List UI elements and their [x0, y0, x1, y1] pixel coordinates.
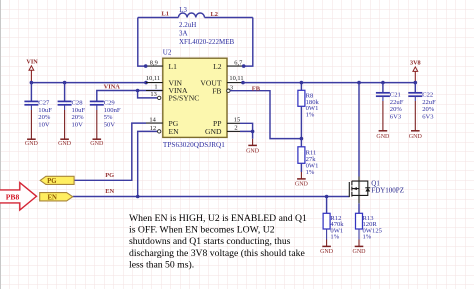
- svg-text:10uF: 10uF: [72, 107, 86, 114]
- svg-text:50V: 50V: [104, 121, 116, 128]
- node dot VOUT: [241, 81, 245, 85]
- svg-text:6,7: 6,7: [234, 60, 243, 67]
- ground GND R11: [295, 172, 309, 188]
- svg-text:EN: EN: [105, 188, 114, 195]
- pin VINA (1): [146, 84, 188, 96]
- node junction Q1 drain: [357, 81, 361, 85]
- svg-text:L1: L1: [162, 10, 169, 17]
- svg-text:U2: U2: [163, 49, 172, 57]
- transistor Q1: [349, 177, 370, 204]
- svg-text:XFL4020-222MEB: XFL4020-222MEB: [179, 38, 235, 46]
- svg-text:C28: C28: [72, 100, 84, 107]
- svg-text:8,9: 8,9: [150, 59, 158, 66]
- ground GND R13: [353, 240, 367, 255]
- resistor R11: [298, 139, 319, 176]
- svg-text:20%: 20%: [390, 106, 403, 113]
- node junction VIN/C27: [30, 81, 34, 85]
- svg-text:PS/SYNC: PS/SYNC: [169, 94, 200, 103]
- node junction C22/3V8: [414, 81, 418, 85]
- svg-text:PG: PG: [47, 178, 57, 185]
- svg-text:GND: GND: [320, 249, 334, 255]
- pin L2 (6,7): [213, 60, 244, 71]
- svg-text:2.2uH: 2.2uH: [179, 21, 196, 29]
- IC U2 body: [163, 58, 227, 137]
- node junction VINA: [136, 89, 140, 93]
- svg-text:GND: GND: [205, 127, 222, 136]
- wire VOUT rail: [243, 82, 415, 84]
- svg-text:GND: GND: [376, 134, 390, 140]
- svg-text:10,11: 10,11: [229, 75, 243, 82]
- capacitor C21: [376, 83, 404, 121]
- svg-text:GND: GND: [90, 141, 104, 147]
- svg-text:1: 1: [154, 84, 157, 91]
- svg-text:10uF: 10uF: [38, 107, 52, 114]
- node dot pin 6,7: [242, 64, 246, 68]
- svg-text:6V3: 6V3: [422, 114, 434, 121]
- wire: loop left vertical: [138, 18, 146, 67]
- wire: inductor loop top-left segment: [138, 17, 179, 19]
- node junction C21: [381, 81, 385, 85]
- off-sheet connector PB8: [0, 183, 37, 210]
- svg-text:3V8: 3V8: [410, 60, 421, 67]
- capacitor C27: [24, 83, 52, 129]
- pin PP (15): [213, 116, 240, 128]
- svg-text:PG: PG: [105, 172, 114, 179]
- svg-text:GND: GND: [58, 141, 72, 147]
- svg-text:14: 14: [149, 116, 156, 123]
- ground GND C28: [58, 110, 72, 147]
- pin PG (14): [146, 116, 179, 128]
- svg-text:When EN is HIGH, U2 is ENABLED: When EN is HIGH, U2 is ENABLED and Q1: [129, 213, 307, 224]
- capacitor C29: [90, 100, 121, 129]
- svg-text:GND: GND: [409, 134, 423, 140]
- wire PP/GND to ground: [240, 123, 253, 139]
- svg-text:GND: GND: [295, 182, 309, 188]
- wire Q1 drain: [358, 83, 360, 177]
- svg-text:20%: 20%: [422, 106, 435, 113]
- svg-text:20%: 20%: [38, 114, 51, 121]
- ground GND pins: [246, 139, 260, 155]
- pin VIN (10,11): [146, 75, 183, 87]
- wire VINA: [97, 91, 138, 102]
- svg-text:FB: FB: [212, 86, 221, 95]
- resistor R12: [323, 213, 344, 240]
- svg-text:discharging the 3V8 voltage (t: discharging the 3V8 voltage (this should…: [129, 248, 305, 259]
- svg-text:GND: GND: [25, 141, 39, 147]
- power symbol 3V8: [410, 60, 421, 83]
- pin 12 bubble: [158, 130, 161, 133]
- wire: VIN rail: [31, 82, 146, 84]
- pin GND (2): [205, 124, 240, 136]
- port PG: [40, 176, 74, 185]
- pin L1 (8,9): [146, 59, 177, 70]
- svg-text:C22: C22: [422, 91, 433, 98]
- svg-text:GND: GND: [353, 249, 367, 255]
- node junction FB/R8/R11: [300, 137, 304, 141]
- node junction VIN pin: [144, 81, 148, 85]
- svg-text:C27: C27: [38, 100, 50, 107]
- ground GND C27: [25, 110, 39, 147]
- svg-text:1%: 1%: [306, 169, 315, 176]
- svg-text:L1: L1: [169, 62, 178, 71]
- note text block: [129, 213, 307, 271]
- wire VINA to pin1 and pin13: [138, 91, 163, 98]
- capacitor C28: [58, 83, 86, 129]
- wire Q1 source to R13: [358, 203, 360, 213]
- ground GND C21: [376, 101, 390, 140]
- svg-text:shutdowns and Q1 starts conduc: shutdowns and Q1 starts conducting, thus: [129, 236, 291, 247]
- wire FB net: [230, 91, 301, 139]
- pin PS/SYNC (13): [150, 91, 199, 103]
- inductor L3: [178, 13, 204, 18]
- resistor R13: [356, 213, 383, 240]
- svg-text:L2: L2: [211, 11, 218, 18]
- svg-text:10,11: 10,11: [146, 75, 160, 82]
- svg-text:1%: 1%: [306, 112, 315, 119]
- wire: inductor loop top-right segment: [205, 17, 253, 19]
- svg-text:C21: C21: [390, 91, 401, 98]
- wire EN net: [73, 131, 350, 213]
- svg-text:10V: 10V: [72, 121, 84, 128]
- svg-text:VINA: VINA: [104, 83, 121, 90]
- svg-text:L2: L2: [213, 62, 222, 71]
- sheet border: [0, 0, 2, 289]
- capacitor C22: [408, 83, 436, 121]
- svg-text:PB8: PB8: [6, 193, 20, 202]
- wire: loop right vertical: [244, 18, 253, 67]
- svg-text:5%: 5%: [104, 114, 113, 121]
- node junction pin2: [251, 130, 255, 134]
- svg-text:FDY100PZ: FDY100PZ: [371, 186, 404, 194]
- svg-text:100nF: 100nF: [104, 107, 121, 114]
- pin EN (12): [150, 125, 179, 136]
- svg-text:VIN: VIN: [26, 59, 38, 66]
- svg-text:L3: L3: [179, 7, 187, 14]
- node junction EN/R12: [325, 195, 329, 199]
- svg-text:20%: 20%: [72, 114, 85, 121]
- pin VOUT (10,11): [200, 75, 243, 87]
- pin 13 bubble: [158, 96, 161, 99]
- svg-text:1%: 1%: [363, 234, 372, 241]
- svg-text:C29: C29: [104, 100, 116, 107]
- svg-text:EN: EN: [169, 127, 180, 136]
- svg-text:22uF: 22uF: [390, 99, 404, 106]
- power symbol VIN: [26, 59, 38, 83]
- svg-text:1%: 1%: [330, 234, 339, 241]
- wire PG net: [74, 123, 146, 180]
- svg-text:TPS63020QDSJRQ1: TPS63020QDSJRQ1: [163, 141, 225, 149]
- svg-text:15: 15: [234, 116, 240, 123]
- svg-text:2: 2: [234, 124, 237, 131]
- svg-text:EN: EN: [47, 194, 57, 201]
- port EN: [40, 193, 73, 202]
- node junction C28: [63, 81, 67, 85]
- svg-text:GND: GND: [246, 149, 260, 155]
- svg-text:3A: 3A: [179, 29, 188, 37]
- resistor R8: [298, 83, 320, 139]
- node junction EN/pin12: [136, 195, 140, 199]
- pin FB (3): [212, 84, 233, 95]
- svg-text:22uF: 22uF: [422, 99, 436, 106]
- svg-text:less than 50 ms).: less than 50 ms).: [129, 260, 194, 271]
- ground GND C29: [90, 110, 104, 147]
- svg-text:10V: 10V: [38, 121, 50, 128]
- svg-text:FB: FB: [252, 85, 261, 92]
- svg-text:6V3: 6V3: [390, 114, 402, 121]
- svg-text:is OFF. When EN becomes LOW, U: is OFF. When EN becomes LOW, U2: [129, 225, 275, 236]
- pin 3 bubble: [227, 89, 230, 92]
- ground GND R12: [320, 240, 334, 255]
- node junction R8 top: [300, 81, 304, 85]
- svg-text:13: 13: [150, 91, 156, 98]
- node dot pin 8,9: [144, 64, 148, 68]
- ground GND C22: [409, 101, 423, 140]
